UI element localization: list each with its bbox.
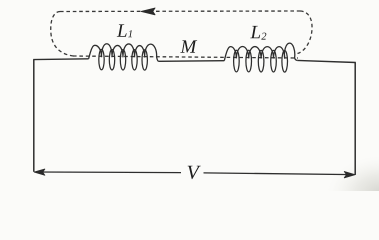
V arrow right head <box>344 172 355 178</box>
inductor L1 coil humps <box>89 44 159 62</box>
inductor L2 loop ellipses <box>234 50 288 72</box>
label V <box>188 166 201 179</box>
V arrow left head <box>34 169 45 175</box>
label L2 <box>250 26 260 38</box>
wire: right vertical <box>354 63 356 175</box>
inductor L1 loop ellipses <box>99 49 148 70</box>
label M <box>180 40 197 52</box>
dashed left cap <box>51 12 74 57</box>
inductor L2 coil humps <box>224 43 297 61</box>
dashed right cap <box>298 11 313 54</box>
dashed axis line through both coils <box>73 56 298 58</box>
flux loop (dashed stadium with axis line through coils) <box>51 11 312 58</box>
scan shadow bottom-right corner <box>327 156 379 232</box>
V arrow line right segment <box>204 173 354 175</box>
wire: left vertical <box>33 60 35 172</box>
wire: top right horizontal <box>297 60 356 62</box>
dashed top line <box>60 10 300 13</box>
flux direction arrow (points left) <box>141 8 155 15</box>
label L1 <box>117 24 127 36</box>
wire: top left horizontal <box>33 58 88 61</box>
V arrow line left segment <box>36 171 181 174</box>
wire between coils <box>158 60 224 63</box>
